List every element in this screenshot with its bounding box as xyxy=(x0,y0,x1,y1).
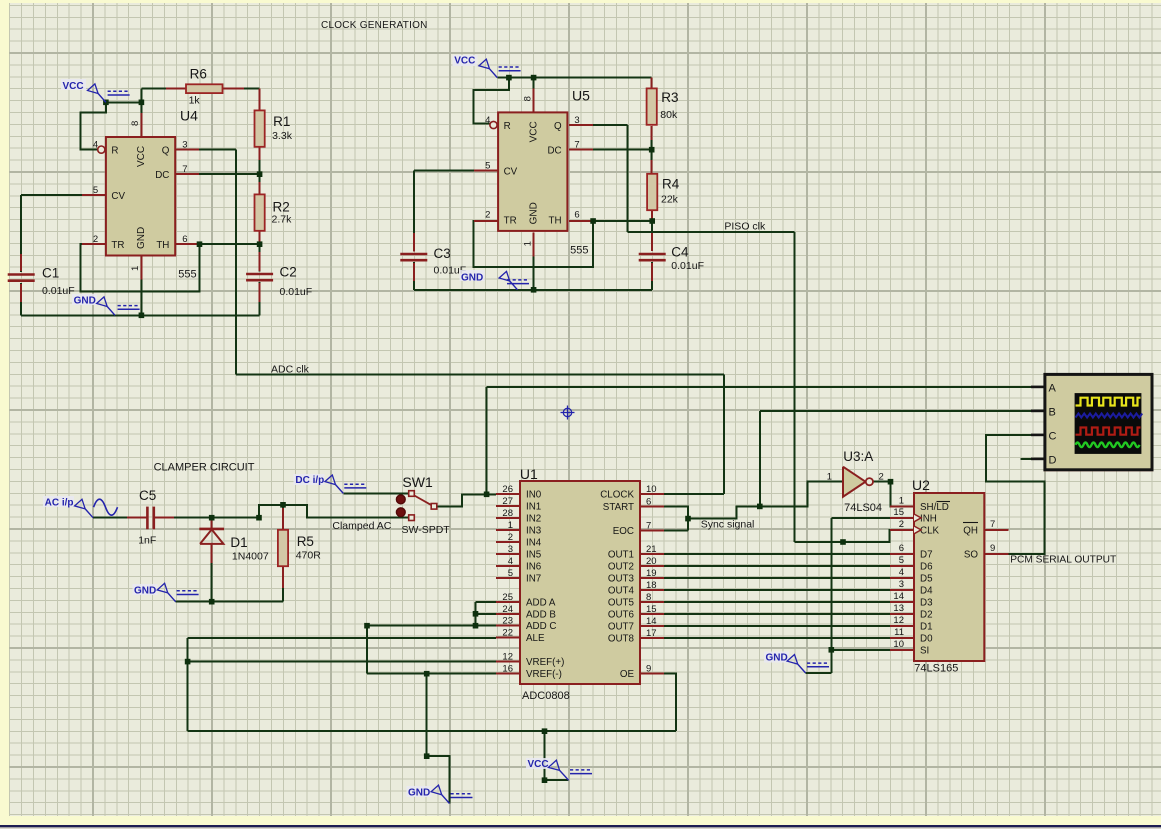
junction at 759.8,506.4 xyxy=(757,504,763,510)
ground terminal below U1 xyxy=(442,795,450,804)
svg-text:ADD A: ADD A xyxy=(526,597,556,608)
svg-text:DC: DC xyxy=(155,170,169,181)
555 timer U5 xyxy=(498,112,567,230)
svg-text:C4: C4 xyxy=(671,245,689,260)
wire R1 bottom to R2 top xyxy=(259,147,261,195)
capacitor C5 xyxy=(146,507,149,530)
wire VREF(-) xyxy=(367,673,496,675)
svg-text:IN1: IN1 xyxy=(526,502,541,513)
U2 pin stubs xyxy=(890,505,914,507)
svg-text:20: 20 xyxy=(646,556,657,567)
wire INH-SI-GND vertical xyxy=(830,518,832,673)
svg-text:D3: D3 xyxy=(920,598,933,609)
svg-text:11: 11 xyxy=(894,627,904,638)
ground terminal GND U5 xyxy=(510,281,518,290)
junction at 508.9,77.6 xyxy=(506,75,512,81)
terminal AC input with sine symbol xyxy=(85,509,93,518)
wire R3 top lead xyxy=(651,78,653,89)
svg-text:D: D xyxy=(1049,454,1057,466)
svg-text:CLAMPER CIRCUIT: CLAMPER CIRCUIT xyxy=(154,462,255,474)
svg-text:6: 6 xyxy=(646,496,651,507)
svg-text:GND: GND xyxy=(134,586,156,597)
svg-text:TH: TH xyxy=(156,240,169,251)
svg-text:7: 7 xyxy=(646,520,651,531)
svg-text:OUT4: OUT4 xyxy=(608,586,635,597)
svg-text:1N4007: 1N4007 xyxy=(232,551,269,563)
wire C1 bottom lead xyxy=(20,283,22,315)
svg-text:SW1: SW1 xyxy=(402,474,433,490)
svg-text:3: 3 xyxy=(182,140,187,151)
svg-text:26: 26 xyxy=(502,484,513,495)
svg-text:R4: R4 xyxy=(662,177,680,192)
svg-text:10: 10 xyxy=(893,639,904,650)
junction at 651.7,149.7 xyxy=(649,147,655,153)
wire TH pin6 U5 to R4-C4 xyxy=(569,220,652,222)
junction at 426.7,756.2 xyxy=(424,753,430,759)
svg-text:7: 7 xyxy=(574,140,579,151)
wire U1 START pin6 to sync node xyxy=(664,506,688,530)
ground terminal U2 SI xyxy=(798,664,806,673)
svg-text:GND: GND xyxy=(528,202,539,224)
svg-text:OUT6: OUT6 xyxy=(608,610,635,621)
resistor R3 xyxy=(647,88,657,124)
reset bubble U5 pin4 xyxy=(490,121,497,128)
diode D1 1N4007 xyxy=(199,528,224,531)
wire OUT5 to D3 xyxy=(664,601,890,603)
wire DC pin7 U4 to R1-R2 junction xyxy=(175,173,259,175)
svg-text:1: 1 xyxy=(508,520,513,531)
svg-text:5: 5 xyxy=(899,555,904,566)
svg-text:27: 27 xyxy=(502,496,513,507)
wire C1 top lead xyxy=(20,195,22,272)
svg-text:C1: C1 xyxy=(42,266,59,281)
scope trace C red xyxy=(1076,428,1141,435)
svg-text:D2: D2 xyxy=(920,610,933,621)
wire ALE-VREF+ vertical xyxy=(187,638,189,731)
svg-text:ADD B: ADD B xyxy=(526,609,556,620)
wire R3 bottom to R4 top xyxy=(651,126,653,174)
svg-text:GND: GND xyxy=(136,227,147,249)
wire Q output U4 pin3 xyxy=(175,149,236,151)
wire ADD C xyxy=(367,625,496,627)
svg-text:15: 15 xyxy=(646,604,657,615)
svg-text:23: 23 xyxy=(502,616,513,627)
svg-text:9: 9 xyxy=(990,543,995,554)
svg-text:INH: INH xyxy=(920,513,937,524)
wire ADDC to VREF- tie xyxy=(366,626,368,674)
svg-text:R2: R2 xyxy=(273,200,290,215)
junction at 544.5,731.2 xyxy=(542,728,548,734)
svg-text:ALE: ALE xyxy=(526,633,545,644)
ground terminal GND U4 xyxy=(107,307,115,316)
svg-text:13: 13 xyxy=(893,603,904,614)
svg-text:1: 1 xyxy=(827,472,832,483)
svg-text:C2: C2 xyxy=(280,265,297,280)
svg-text:10: 10 xyxy=(646,484,657,495)
svg-text:6: 6 xyxy=(182,234,187,245)
svg-text:IN0: IN0 xyxy=(526,490,542,501)
inverter U3:A 74LS04 xyxy=(843,467,866,497)
svg-text:4: 4 xyxy=(508,556,513,567)
wire VCC terminal drop xyxy=(545,731,569,780)
svg-text:12: 12 xyxy=(893,615,904,626)
resistor R5 xyxy=(278,530,288,566)
wire SO pin9 to scope C xyxy=(986,435,1045,554)
wire U4 ground rail xyxy=(21,314,259,316)
wire OUT4 to D4 xyxy=(664,589,890,591)
svg-text:C5: C5 xyxy=(139,488,156,503)
wire R5 top lead xyxy=(282,505,284,530)
svg-text:Q: Q xyxy=(554,121,562,132)
svg-text:R1: R1 xyxy=(273,114,290,129)
svg-text:24: 24 xyxy=(502,604,513,615)
svg-text:OUT3: OUT3 xyxy=(608,574,635,585)
svg-text:CLOCK: CLOCK xyxy=(600,490,634,501)
wire VCC to reset pin 4 of U5 xyxy=(473,78,509,124)
capacitor C1 xyxy=(8,273,35,276)
svg-text:5: 5 xyxy=(93,185,98,196)
svg-text:21: 21 xyxy=(646,544,657,555)
U1 pin stubs xyxy=(496,493,520,495)
wire OUT1 to D7 xyxy=(664,553,890,555)
wire sync to scope B vertical xyxy=(759,411,761,506)
svg-text:2: 2 xyxy=(485,209,490,220)
svg-text:VREF(-): VREF(-) xyxy=(526,669,562,680)
svg-text:START: START xyxy=(603,502,634,513)
svg-text:SW-SPDT: SW-SPDT xyxy=(402,524,451,536)
svg-text:28: 28 xyxy=(502,508,513,519)
svg-text:2: 2 xyxy=(508,532,513,543)
junction at 187.6,661.6 xyxy=(185,659,191,665)
wire C4 bottom lead xyxy=(651,262,653,290)
svg-text:0.01uF: 0.01uF xyxy=(280,286,313,298)
svg-text:TR: TR xyxy=(504,215,517,226)
svg-text:B: B xyxy=(1049,406,1056,418)
wire PISO clk to CLK pin2 xyxy=(794,530,892,542)
junction at 105.9,102.3 xyxy=(103,100,109,106)
junction at 367,625.7 xyxy=(364,623,370,629)
svg-text:2: 2 xyxy=(93,234,98,245)
svg-text:D5: D5 xyxy=(920,574,933,585)
junction at 199.5,244.2 xyxy=(197,241,203,247)
svg-text:VCC: VCC xyxy=(528,121,539,142)
svg-text:QH: QH xyxy=(963,525,978,536)
svg-text:R6: R6 xyxy=(190,67,207,82)
svg-text:470R: 470R xyxy=(296,550,322,562)
svg-text:IN3: IN3 xyxy=(526,526,542,537)
scope trace D green xyxy=(1076,443,1140,448)
svg-text:R: R xyxy=(504,121,511,132)
wire OUT7 to D1 xyxy=(664,625,890,627)
svg-text:3: 3 xyxy=(899,579,904,590)
svg-text:U2: U2 xyxy=(912,477,930,493)
junction at 259.6,174.2 xyxy=(257,171,263,177)
svg-text:ADD C: ADD C xyxy=(526,621,556,632)
wire pin8 vertical U5 xyxy=(533,78,535,113)
svg-text:CV: CV xyxy=(504,166,518,177)
svg-text:DC: DC xyxy=(547,145,561,156)
svg-text:17: 17 xyxy=(646,628,657,639)
svg-text:R3: R3 xyxy=(661,90,678,105)
resistor R2 xyxy=(255,194,265,230)
svg-text:C3: C3 xyxy=(434,246,451,261)
svg-text:OUT2: OUT2 xyxy=(608,562,634,573)
wire VCC to reset pin 4 of U4 xyxy=(81,102,106,149)
svg-text:8: 8 xyxy=(522,96,533,101)
capacitor C4 xyxy=(639,253,666,256)
wire PISO clk down to U2 CLK xyxy=(793,232,795,542)
svg-text:OUT1: OUT1 xyxy=(608,550,634,561)
wire ADD B xyxy=(476,613,497,615)
scope trace A yellow xyxy=(1076,398,1141,406)
svg-text:19: 19 xyxy=(646,568,657,579)
svg-text:14: 14 xyxy=(893,591,904,602)
svg-text:Clamped AC: Clamped AC xyxy=(332,520,391,532)
555 timer U4 xyxy=(106,137,175,256)
svg-text:D0: D0 xyxy=(920,634,933,645)
wire TR to TH loop U4 xyxy=(81,244,200,291)
power terminal VCC below U1 xyxy=(560,770,569,780)
wire VREF(+) xyxy=(188,661,496,663)
svg-text:2.7k: 2.7k xyxy=(272,213,293,225)
svg-text:D7: D7 xyxy=(920,550,933,561)
svg-text:U4: U4 xyxy=(180,108,198,124)
wire U5 ground rail xyxy=(414,289,652,291)
junction at 475.5,625.7 xyxy=(473,623,479,629)
wire R1 top lead xyxy=(259,89,261,111)
wire scope D stub xyxy=(1020,458,1032,460)
svg-text:OUT5: OUT5 xyxy=(608,598,635,609)
svg-text:DC i/p: DC i/p xyxy=(295,475,324,486)
svg-text:555: 555 xyxy=(178,269,196,281)
junction at 475.5,613.8 xyxy=(473,611,479,617)
svg-text:14: 14 xyxy=(646,616,657,627)
svg-text:OE: OE xyxy=(620,669,635,680)
svg-text:OUT7: OUT7 xyxy=(608,622,634,633)
junction at 486.6,494.3 xyxy=(484,492,490,498)
reset bubble U4 pin4 xyxy=(98,146,105,153)
wire R5 bottom lead xyxy=(282,567,284,602)
svg-text:6: 6 xyxy=(574,209,579,220)
svg-text:D1: D1 xyxy=(920,622,933,633)
wire VCC rail bottom xyxy=(188,730,676,732)
wire OUT8 to D0 xyxy=(664,637,890,639)
junction at 544.5,780.2 xyxy=(542,777,548,783)
wire U1 EOC pin7 to sync node xyxy=(664,529,688,531)
power terminal VCC U4 xyxy=(98,94,106,103)
svg-text:VCC: VCC xyxy=(528,759,549,770)
wire OUT3 to D5 xyxy=(664,577,890,579)
junction at 890.5,481.7 xyxy=(888,479,894,485)
svg-text:2: 2 xyxy=(899,519,904,530)
wire VCC to pin8 rail of U4 xyxy=(106,101,141,103)
wire ADC clk down to U1 CLOCK xyxy=(723,374,725,494)
wire U3 output to SH/LD pin1 xyxy=(873,482,892,507)
wire VCC rail of U5 xyxy=(497,77,651,79)
svg-text:SH/LD: SH/LD xyxy=(920,502,949,513)
junction at 533.6,77.6 xyxy=(531,75,537,81)
svg-text:3.3k: 3.3k xyxy=(272,130,293,142)
wire pin1 U5 to ground rail xyxy=(533,232,535,289)
svg-text:18: 18 xyxy=(646,580,657,591)
origin marker xyxy=(563,408,571,416)
svg-text:16: 16 xyxy=(502,664,513,675)
ground terminal clamper xyxy=(168,593,176,602)
svg-text:IN5: IN5 xyxy=(526,550,542,561)
wire PISO clk horizontal xyxy=(628,231,795,233)
resistor R6 xyxy=(186,84,223,93)
svg-text:GND: GND xyxy=(74,296,96,307)
svg-text:1: 1 xyxy=(899,495,904,506)
svg-text:80k: 80k xyxy=(660,109,678,121)
wire pin8 vertical U4 xyxy=(140,89,142,137)
svg-text:5: 5 xyxy=(485,160,490,171)
svg-text:OUT8: OUT8 xyxy=(608,634,635,645)
wire D1 top lead xyxy=(211,518,213,529)
svg-text:74LS165: 74LS165 xyxy=(914,663,958,675)
wire ADD A-B-C tie xyxy=(475,602,477,626)
wire INH pin15 xyxy=(831,517,890,519)
wire C3 bottom lead xyxy=(413,262,415,290)
svg-text:Q: Q xyxy=(162,146,170,157)
wire U1 CLOCK pin10 xyxy=(664,493,724,495)
wire GND terminal to SI xyxy=(806,672,832,674)
wire scope B horizontal xyxy=(760,410,1045,412)
svg-text:D6: D6 xyxy=(920,562,933,573)
wire R2 bottom to C2 top xyxy=(259,231,261,272)
svg-text:8: 8 xyxy=(646,592,651,603)
scope trace B blue xyxy=(1076,414,1143,418)
svg-text:ADC clk: ADC clk xyxy=(271,364,310,376)
junction at 259,517.7 xyxy=(256,515,262,521)
svg-text:ADC0808: ADC0808 xyxy=(522,690,570,702)
svg-text:1: 1 xyxy=(130,266,141,271)
svg-text:IN4: IN4 xyxy=(526,538,542,549)
svg-text:VREF(+): VREF(+) xyxy=(526,657,564,668)
wire OUT2 to D6 xyxy=(664,565,890,567)
wire DC input to SW1 top throw xyxy=(343,492,408,494)
svg-text:3: 3 xyxy=(508,544,513,555)
svg-text:1nF: 1nF xyxy=(138,535,156,547)
svg-text:GND: GND xyxy=(461,273,483,284)
wire AC input to C5 xyxy=(93,517,147,519)
svg-text:25: 25 xyxy=(502,592,513,603)
wire clamper ground rail xyxy=(176,601,283,603)
U5 pin stubs xyxy=(474,169,498,171)
junction at 593.1,221 xyxy=(590,218,596,224)
junction at 843,542 xyxy=(840,539,846,545)
svg-text:VCC: VCC xyxy=(136,146,147,167)
svg-text:8: 8 xyxy=(130,121,141,126)
junction at 533.6,289.8 xyxy=(531,287,537,293)
junction at 141.4,102.3 xyxy=(139,100,145,106)
svg-text:CLK: CLK xyxy=(920,525,940,536)
wire R4 bottom to C4 top xyxy=(651,209,653,251)
svg-text:IN2: IN2 xyxy=(526,514,541,525)
junction at 211.7,601.7 xyxy=(209,599,215,605)
svg-text:VCC: VCC xyxy=(63,81,84,92)
svg-text:74LS04: 74LS04 xyxy=(844,502,882,514)
junction at 652.2,221 xyxy=(649,218,655,224)
IC U1 ADC0808 xyxy=(520,481,640,684)
IC U2 74LS165 xyxy=(914,493,984,661)
resistor R4 xyxy=(647,174,657,210)
wire OUT6 to D2 xyxy=(664,613,890,615)
wire CV pin5 U5 to C3 xyxy=(414,169,498,171)
wire D1 bottom lead xyxy=(211,544,213,602)
wire DC pin7 U5 to R3-R4 junction xyxy=(569,149,652,151)
svg-text:1k: 1k xyxy=(189,95,201,107)
wire C5 to D1 junction node xyxy=(154,517,259,519)
wire PISO clk vertical from Q xyxy=(627,125,629,232)
svg-text:4: 4 xyxy=(899,567,904,578)
junction at 283,504.8 xyxy=(280,502,286,508)
svg-text:7: 7 xyxy=(182,164,187,175)
svg-text:12: 12 xyxy=(502,652,513,663)
svg-text:C: C xyxy=(1049,430,1057,442)
wire ADC clk vertical from Q xyxy=(235,150,237,375)
wire C3 top lead xyxy=(413,170,415,251)
wire TR to TH loop U5 xyxy=(473,221,593,267)
svg-text:R5: R5 xyxy=(297,534,314,549)
svg-text:GND: GND xyxy=(408,788,430,799)
svg-text:PISO clk: PISO clk xyxy=(724,221,766,233)
svg-text:D1: D1 xyxy=(230,535,247,550)
svg-text:TR: TR xyxy=(111,240,124,251)
svg-text:CV: CV xyxy=(111,191,125,202)
wire C2 bottom lead xyxy=(259,282,261,315)
wire ALE xyxy=(188,637,496,639)
svg-text:2: 2 xyxy=(879,472,884,483)
junction at 688,518.6 xyxy=(685,516,691,522)
svg-text:VCC: VCC xyxy=(454,56,475,67)
U4 pin stubs xyxy=(82,194,106,196)
svg-text:22k: 22k xyxy=(661,194,679,206)
svg-text:U3:A: U3:A xyxy=(843,449,873,464)
svg-text:3: 3 xyxy=(574,115,579,126)
wire R6 top rail xyxy=(141,88,259,90)
svg-text:SI: SI xyxy=(920,645,929,656)
resistor and capacitor leads xyxy=(259,89,261,111)
svg-text:SO: SO xyxy=(964,549,979,560)
svg-text:U5: U5 xyxy=(572,88,590,104)
svg-text:U1: U1 xyxy=(520,466,538,482)
svg-text:5: 5 xyxy=(508,568,513,579)
capacitor C3 xyxy=(400,253,427,256)
svg-text:PCM SERIAL OUTPUT: PCM SERIAL OUTPUT xyxy=(1010,555,1116,566)
svg-text:6: 6 xyxy=(899,543,904,554)
svg-text:7: 7 xyxy=(990,519,995,530)
svg-text:IN6: IN6 xyxy=(526,562,542,573)
svg-text:555: 555 xyxy=(570,245,588,257)
svg-text:CLOCK GENERATION: CLOCK GENERATION xyxy=(321,20,428,31)
wire IN0 node up to signal line xyxy=(486,387,488,494)
svg-text:9: 9 xyxy=(646,664,651,675)
junction at 259.6,244.2 xyxy=(257,241,263,247)
svg-text:EOC: EOC xyxy=(613,526,634,537)
svg-text:22: 22 xyxy=(502,628,513,639)
wire signal line to scope A xyxy=(487,386,1045,388)
oscilloscope xyxy=(1044,373,1154,471)
svg-text:Sync signal: Sync signal xyxy=(701,519,755,531)
svg-text:A: A xyxy=(1049,382,1057,394)
wire SW1 pole to U1 IN0 xyxy=(437,494,496,506)
wire clamped AC step to SW1 bottom throw xyxy=(259,505,409,518)
svg-text:R: R xyxy=(111,146,118,157)
wire SI pin10 xyxy=(831,649,890,651)
svg-text:IN7: IN7 xyxy=(526,574,541,585)
terminal DC input xyxy=(336,485,344,494)
